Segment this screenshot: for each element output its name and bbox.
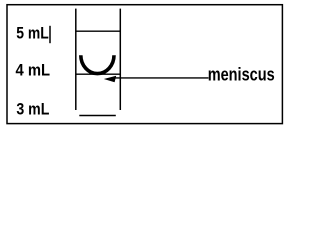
graduation line 5 mL xyxy=(76,30,121,32)
graduation line 3 mL xyxy=(79,115,116,117)
graduation line 4 mL xyxy=(76,73,121,75)
border frame xyxy=(7,5,282,124)
text cursor after 5 mL xyxy=(49,26,51,43)
arrow line xyxy=(113,77,209,79)
arrowhead xyxy=(104,76,116,82)
svg-text:meniscus: meniscus xyxy=(208,64,275,84)
meniscus arc xyxy=(81,55,114,73)
svg-text:5 mL: 5 mL xyxy=(16,24,49,43)
cylinder right wall xyxy=(119,9,121,110)
svg-text:4 mL: 4 mL xyxy=(16,61,51,80)
svg-text:3 mL: 3 mL xyxy=(16,100,49,119)
cylinder left wall xyxy=(75,9,77,110)
